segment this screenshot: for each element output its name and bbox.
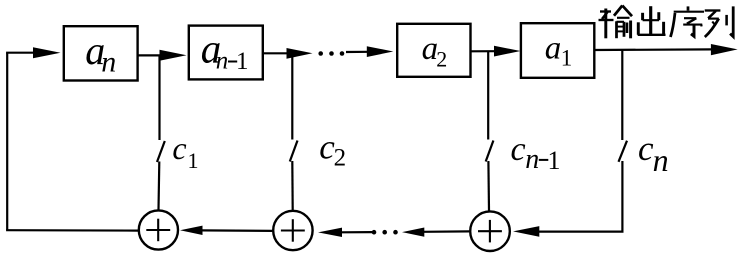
wire adder3 to dots xyxy=(423,230,469,233)
arrowhead into bottom dots xyxy=(402,228,424,237)
svg-text:1: 1 xyxy=(236,48,249,75)
svg-text:2: 2 xyxy=(334,145,347,172)
wire tap c2 lower xyxy=(291,161,294,210)
wire tap cn-1 lower xyxy=(487,161,490,211)
switch c2 blade xyxy=(290,141,298,162)
wire tap c1 lower xyxy=(157,162,160,210)
svg-text:n: n xyxy=(653,142,669,178)
wire feedback bottom horizontal xyxy=(6,229,138,232)
adder U2 circle xyxy=(273,211,312,250)
wire dots to a_2 xyxy=(346,51,369,53)
svg-text:n: n xyxy=(525,144,539,175)
svg-text:1: 1 xyxy=(561,46,573,71)
glyph chu 出 xyxy=(638,6,666,36)
svg-text:n: n xyxy=(216,48,229,75)
svg-text:2: 2 xyxy=(436,46,447,71)
svg-text:a: a xyxy=(545,31,562,67)
adder U3 circle xyxy=(470,211,510,251)
wire feedback top horizontal xyxy=(6,52,36,54)
wire tap cn-1 upper xyxy=(487,51,489,139)
arrowhead into adder2 xyxy=(318,228,342,237)
register box a_n-1 xyxy=(189,26,263,80)
dots top ellipsis xyxy=(318,51,323,56)
wire tap c1 upper xyxy=(158,55,160,140)
label output sequence (Chinese 输出序列) xyxy=(599,6,734,39)
arrowhead into adder1 xyxy=(180,226,203,235)
dots bottom ellipsis xyxy=(372,230,377,235)
svg-text:c: c xyxy=(511,131,526,168)
wire a_n to a_n-1 xyxy=(137,54,162,56)
wire a_2 to a_1 xyxy=(470,50,496,52)
svg-text:c: c xyxy=(638,129,654,168)
wire feedback left vertical xyxy=(6,53,8,231)
arrowhead into a_2 xyxy=(367,46,394,57)
arrowhead output xyxy=(711,44,738,55)
adder U1 plus xyxy=(146,229,170,231)
svg-text:c: c xyxy=(172,130,186,166)
switch cn blade xyxy=(619,141,628,162)
switch c1 blade xyxy=(157,141,165,162)
switch cn-1 blade xyxy=(486,141,494,162)
glyph shu 输 xyxy=(599,6,633,39)
register box a_1 xyxy=(521,23,594,78)
glyph lie 列 xyxy=(705,6,734,37)
wire a_1 to output xyxy=(594,48,713,51)
arrowhead into a_n-1 xyxy=(160,50,187,61)
wire a_n-1 to dots xyxy=(262,52,288,54)
svg-text:1: 1 xyxy=(548,146,561,175)
wire adder2 to adder1 xyxy=(202,229,273,232)
svg-text:n: n xyxy=(101,45,116,78)
adder U1 circle xyxy=(139,210,178,249)
svg-text:1: 1 xyxy=(188,148,199,173)
wire tap cn lower and bottom run to adder3 xyxy=(538,161,622,232)
register box a_2 xyxy=(397,24,470,77)
arrowhead into adder3 xyxy=(513,226,539,237)
glyph xu 序 xyxy=(671,6,705,37)
wire dots to adder2 xyxy=(341,231,372,233)
arrowhead into top dots xyxy=(287,48,313,59)
wire tap c2 upper xyxy=(291,53,293,139)
arrowhead into a_n xyxy=(33,47,61,58)
arrowhead into a_1 xyxy=(494,46,521,57)
adder U2 plus xyxy=(281,229,305,231)
register box a_n xyxy=(64,26,138,80)
adder U3 plus xyxy=(478,230,502,232)
wire tap cn upper xyxy=(621,50,623,140)
